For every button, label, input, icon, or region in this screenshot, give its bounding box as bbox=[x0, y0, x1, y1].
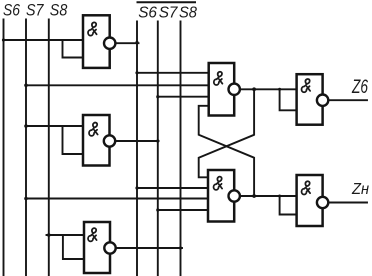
svg-text:Z6: Z6 bbox=[351, 77, 368, 98]
svg-text:S7: S7 bbox=[159, 4, 179, 21]
svg-text:S6: S6 bbox=[138, 4, 157, 21]
svg-text:Zн: Zн bbox=[351, 181, 369, 198]
svg-text:S8: S8 bbox=[179, 4, 197, 21]
svg-text:S6: S6 bbox=[3, 2, 21, 20]
svg-text:S8: S8 bbox=[50, 2, 68, 20]
svg-text:S7: S7 bbox=[26, 2, 44, 20]
